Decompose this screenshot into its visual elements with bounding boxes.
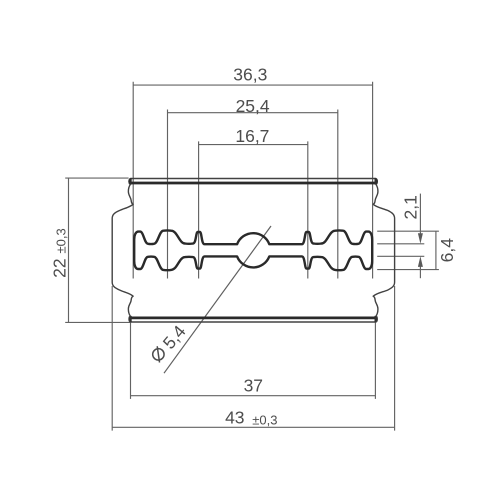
svg-text:37: 37 [244,376,263,396]
svg-text:16,7: 16,7 [235,126,269,146]
svg-text:6,4: 6,4 [437,238,457,263]
svg-text:±0,3: ±0,3 [252,412,277,427]
svg-text:2,1: 2,1 [400,195,420,219]
svg-text:43: 43 [225,408,244,428]
svg-text:36,3: 36,3 [233,64,267,84]
svg-text:25,4: 25,4 [236,96,270,116]
